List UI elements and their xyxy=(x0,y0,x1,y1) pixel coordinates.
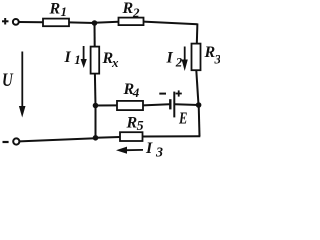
battery minus sign xyxy=(159,93,166,95)
wire node A down to Rx xyxy=(94,23,96,47)
svg-text:1: 1 xyxy=(61,4,68,19)
wire R2 to top right corner xyxy=(144,22,198,25)
wire top right corner down to R3 xyxy=(196,24,199,45)
wire node B to R4 xyxy=(96,104,118,106)
wire node B to node D xyxy=(95,106,97,138)
svg-text:5: 5 xyxy=(137,119,144,134)
current arrow I1 xyxy=(81,46,87,68)
node B junction xyxy=(93,103,99,109)
battery E negative plate (short) xyxy=(169,99,171,109)
voltage arrow U xyxy=(19,52,26,118)
svg-text:U: U xyxy=(2,70,14,91)
svg-text:3: 3 xyxy=(155,146,163,158)
wire terminal+ to R1 xyxy=(19,21,44,23)
svg-text:2: 2 xyxy=(132,5,140,20)
wire node A to R2 xyxy=(95,22,119,23)
svg-text:x: x xyxy=(111,55,119,70)
svg-text:3: 3 xyxy=(214,52,221,67)
wire node D to terminal - xyxy=(19,138,95,141)
current arrow I3 xyxy=(116,147,143,154)
resistor R4 xyxy=(117,101,143,110)
battery plus sign xyxy=(176,90,182,96)
svg-text:1: 1 xyxy=(74,52,81,67)
minus sign of output terminal xyxy=(3,141,9,143)
node D junction xyxy=(93,135,99,141)
svg-text:I: I xyxy=(145,140,153,157)
plus sign of input terminal xyxy=(2,18,9,25)
wire R4 to battery xyxy=(143,104,170,105)
svg-text:I: I xyxy=(64,49,72,66)
svg-text:E: E xyxy=(178,108,187,127)
svg-text:2: 2 xyxy=(175,54,183,69)
terminal + (open circle) xyxy=(13,19,19,25)
battery E positive plate (long) xyxy=(173,92,175,118)
resistor R2 xyxy=(119,18,144,26)
resistor R1 xyxy=(43,19,69,27)
svg-text:4: 4 xyxy=(132,85,140,100)
current arrow I2 xyxy=(182,47,188,72)
wire node C down to bottom right corner xyxy=(198,105,201,136)
svg-text:R: R xyxy=(122,0,134,17)
terminal - (open circle) xyxy=(13,138,19,144)
svg-text:I: I xyxy=(166,50,174,67)
svg-text:R: R xyxy=(49,1,61,18)
resistor R3 xyxy=(192,44,201,71)
wire battery to node C xyxy=(175,103,199,106)
node C junction xyxy=(196,102,202,108)
resistor R5 xyxy=(120,132,143,141)
wire R5 to node D xyxy=(96,136,121,139)
node A junction xyxy=(92,20,98,26)
wire R1 to node A xyxy=(69,21,95,24)
wire Rx to node B xyxy=(94,74,97,106)
wire bottom right corner to R5 xyxy=(143,135,201,137)
resistor Rx xyxy=(91,47,100,74)
wire R3 to node C xyxy=(196,70,198,105)
